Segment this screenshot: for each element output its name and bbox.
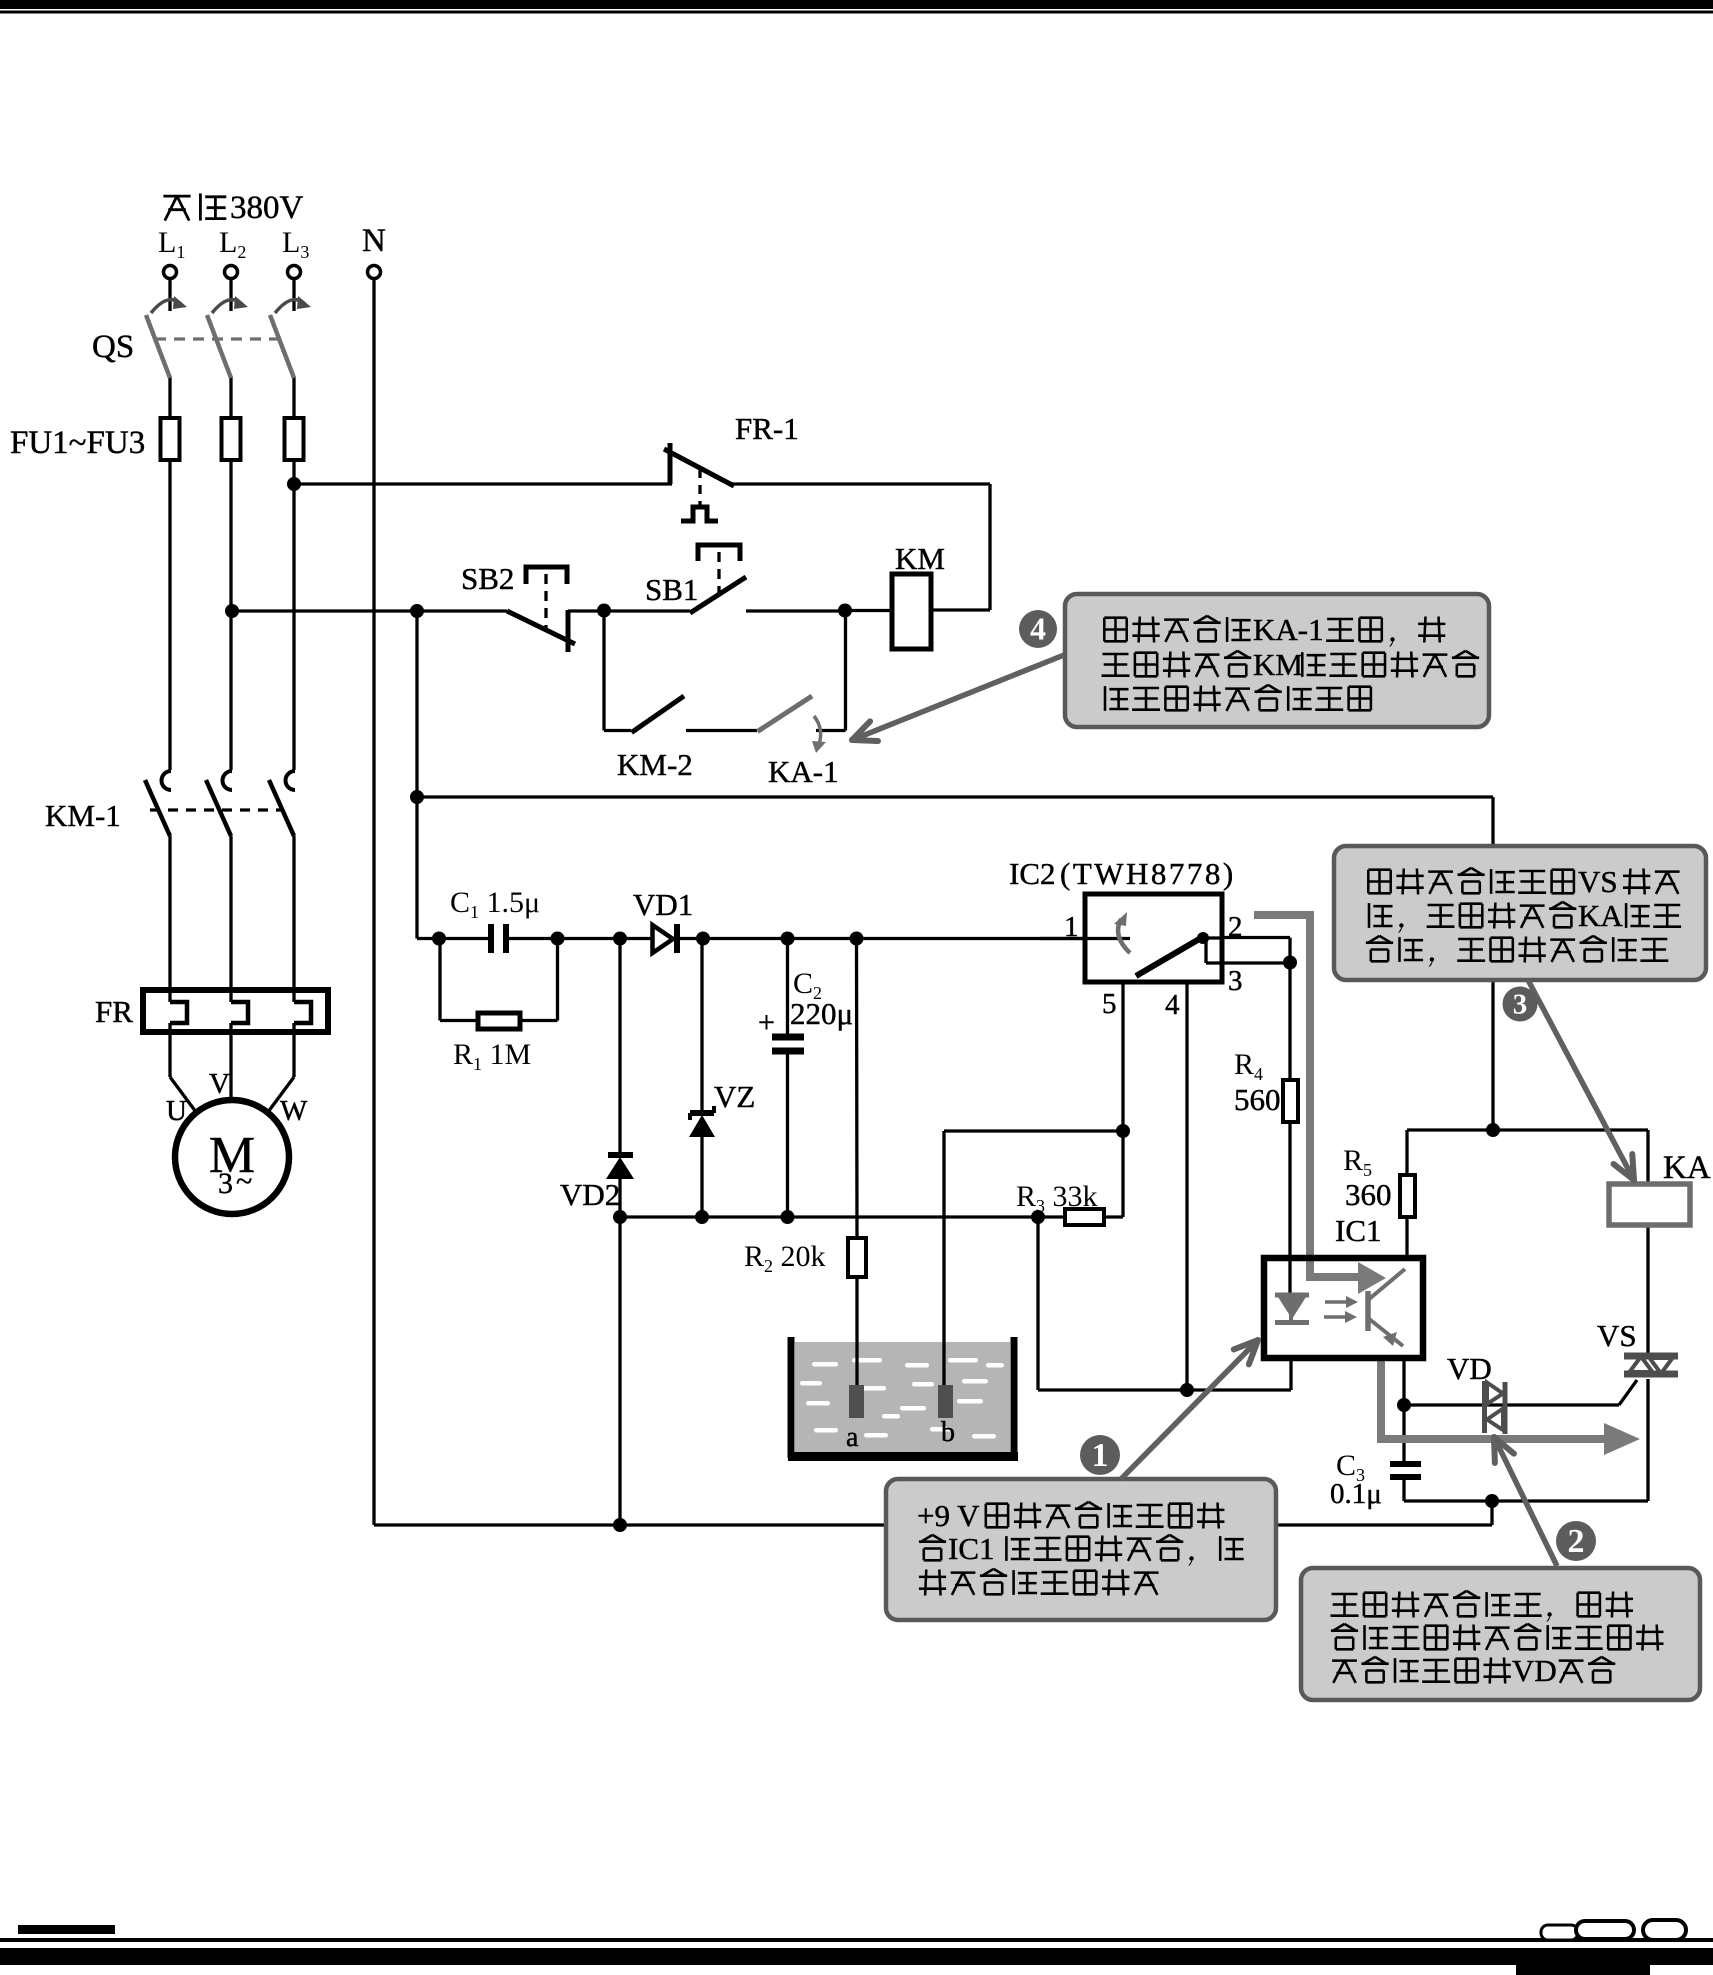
svg-text:R1 1M: R1 1M [453,1038,531,1074]
svg-text:220μ: 220μ [790,996,853,1031]
svg-text:b: b [941,1417,955,1448]
svg-text:FU1~FU3: FU1~FU3 [10,425,145,461]
svg-text:KM-2: KM-2 [617,747,693,782]
svg-text:IC1: IC1 [948,1531,995,1566]
svg-text:VS: VS [1597,1318,1637,1353]
svg-text:W: W [280,1095,308,1127]
svg-text:4: 4 [1165,989,1180,1021]
svg-text:360: 360 [1345,1177,1392,1212]
svg-text:SB1: SB1 [645,572,698,607]
svg-text:2: 2 [1568,1523,1585,1560]
svg-text:(TWH8778): (TWH8778) [1060,856,1236,891]
svg-text:VS: VS [1578,864,1618,899]
svg-text:VD1: VD1 [633,887,693,922]
svg-text:SB2: SB2 [461,561,514,596]
svg-text:~: ~ [236,1165,252,1198]
svg-text:C1 1.5μ: C1 1.5μ [450,886,540,922]
svg-text:IC2: IC2 [1009,856,1056,891]
svg-text:VD: VD [1512,1653,1557,1688]
svg-text:0.1μ: 0.1μ [1330,1478,1382,1510]
svg-text:FR: FR [95,994,133,1029]
svg-text:VZ: VZ [714,1079,755,1114]
svg-text:+: + [758,1006,775,1039]
svg-text:560: 560 [1234,1082,1281,1117]
svg-text:KM: KM [895,541,945,576]
svg-text:3: 3 [1513,989,1528,1021]
svg-text:FR-1: FR-1 [735,411,799,446]
svg-text:U: U [166,1095,187,1127]
svg-text:a: a [846,1422,859,1453]
svg-text:VD2: VD2 [560,1177,620,1212]
svg-text:2: 2 [1228,911,1243,943]
svg-text:1: 1 [1064,911,1079,943]
svg-text:KA: KA [1663,1150,1711,1186]
svg-text:QS: QS [92,329,134,365]
svg-text:+9 V: +9 V [917,1498,980,1533]
svg-text:KM: KM [1253,647,1303,682]
svg-text:R3 33k: R3 33k [1016,1180,1098,1216]
svg-text:3: 3 [218,1167,233,1200]
svg-text:4: 4 [1030,610,1046,646]
svg-text:KA-1: KA-1 [768,754,839,789]
svg-text:R2 20k: R2 20k [744,1240,826,1276]
svg-text:N: N [362,223,386,259]
svg-text:5: 5 [1102,988,1117,1020]
svg-text:V: V [209,1068,230,1100]
svg-text:VD: VD [1447,1351,1492,1386]
svg-text:KA-1: KA-1 [1253,612,1324,647]
svg-text:1: 1 [1092,1437,1109,1474]
svg-text:KM-1: KM-1 [45,798,121,833]
svg-text:3: 3 [1228,965,1243,997]
svg-text:380V: 380V [230,190,304,226]
svg-text:IC1: IC1 [1335,1213,1382,1248]
svg-text:KA: KA [1578,898,1623,933]
